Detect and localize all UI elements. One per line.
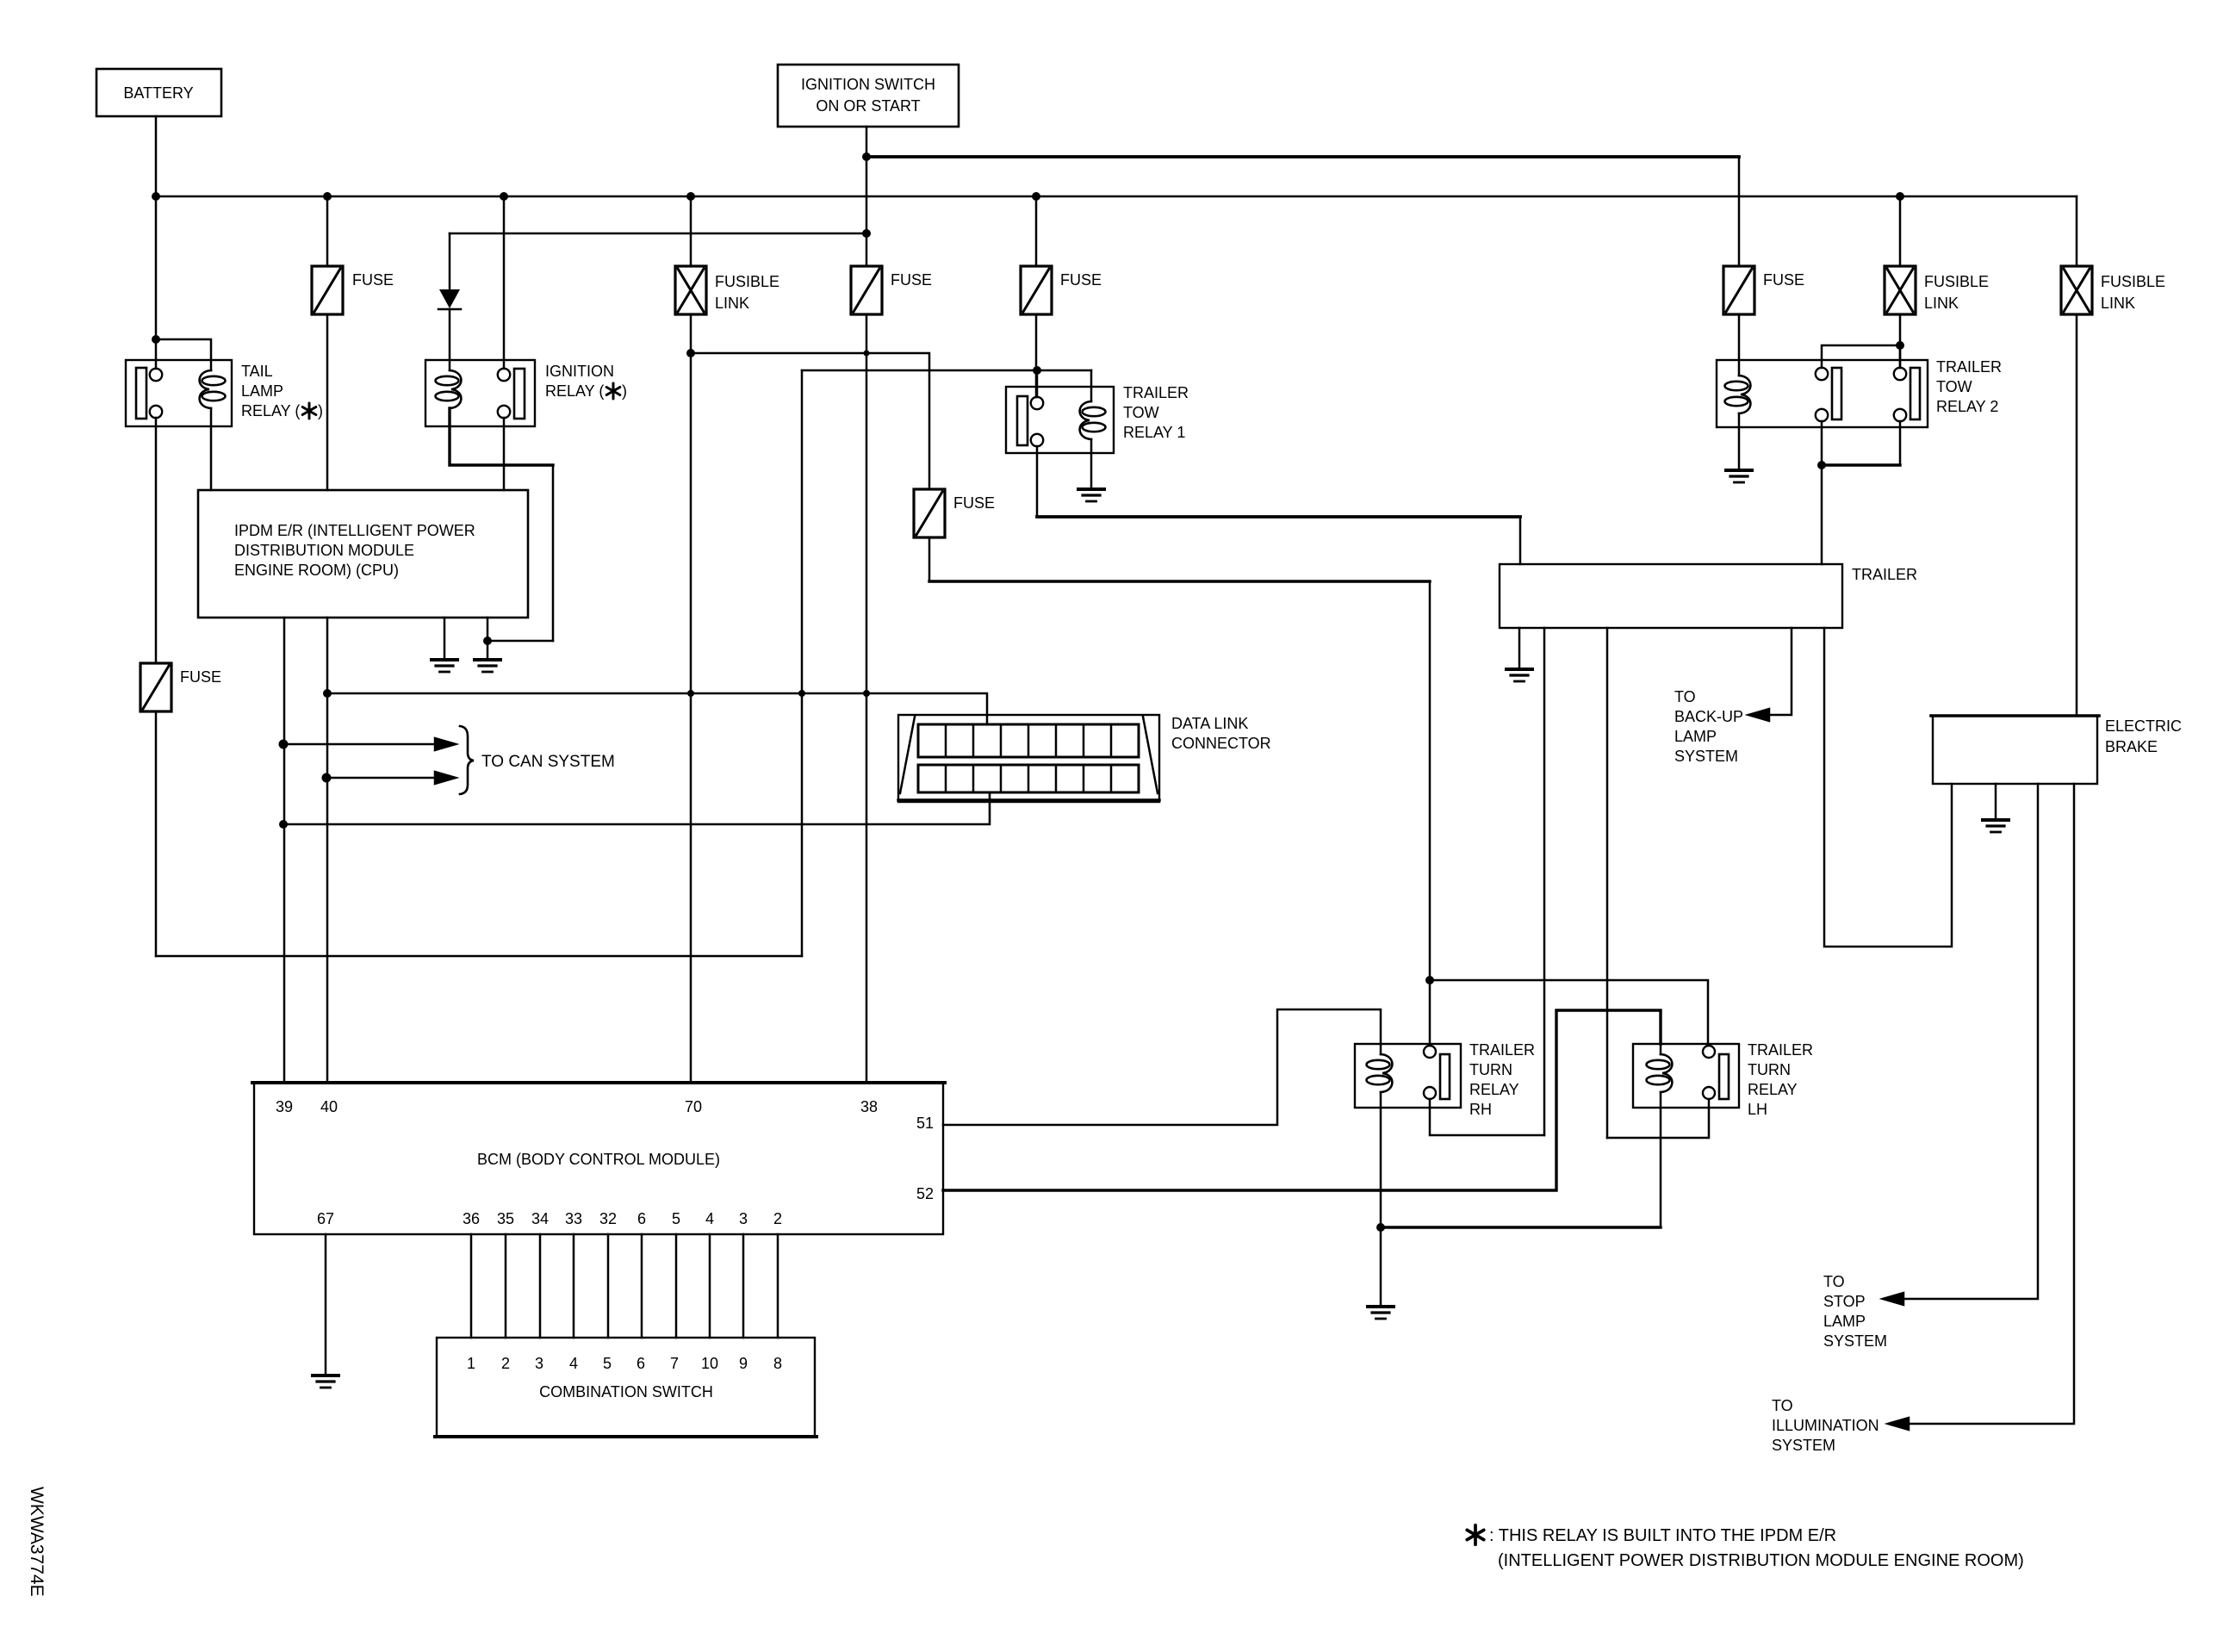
relay K1 tail lamp relay box: [126, 360, 232, 426]
ground IPDM 1: [432, 660, 457, 672]
arrowhead to stop lamp system: [1883, 1293, 1903, 1305]
wire F4 to relay2 coil: [1738, 314, 1741, 376]
svg-text:2: 2: [501, 1355, 510, 1372]
svg-text:36: 36: [463, 1210, 480, 1227]
wire K4 mid contact out: [1821, 421, 1823, 465]
wire F3 to relay1 contact: [1035, 314, 1038, 397]
node bus-fusiblelink1: [686, 192, 695, 201]
svg-text:BRAKE: BRAKE: [2105, 738, 2158, 755]
wire K4 right contact down: [1899, 421, 1902, 465]
wire K5 coil return: [1380, 1092, 1382, 1227]
coil K3 trailer tow relay 1 coil: [1080, 401, 1106, 439]
arrowhead CAN 1: [435, 738, 456, 750]
wire K5 contact out to trailer: [1430, 1099, 1544, 1135]
connector TRAILER box: [1500, 564, 1842, 628]
coil K4 trailer tow relay 2 coil: [1725, 376, 1751, 413]
svg-text:WKWA3774E: WKWA3774E: [27, 1487, 47, 1597]
wire BCM 51 to turn relay RH coil: [943, 1009, 1381, 1125]
node can40: [323, 689, 332, 698]
pin K1 contact bottom: [150, 406, 162, 418]
node can39: [279, 820, 288, 829]
svg-text:TO: TO: [1772, 1397, 1793, 1414]
svg-text:TO: TO: [1823, 1273, 1845, 1290]
wire K5 coil stem: [1380, 1044, 1382, 1054]
wire bus to K2 contact: [503, 196, 506, 369]
svg-text:TOW: TOW: [1936, 378, 1972, 395]
wire IPDM pin to ground2: [487, 618, 489, 660]
wire battery bus B+: [156, 196, 2077, 198]
pin K6 contact bottom: [1703, 1087, 1715, 1099]
svg-text:LAMP: LAMP: [1674, 728, 1717, 745]
arrowhead to backup lamp system: [1748, 709, 1769, 721]
wire IPDM pin to ground1: [444, 618, 446, 660]
wire K2 coil return (thick L): [450, 408, 553, 465]
svg-text:COMBINATION SWITCH: COMBINATION SWITCH: [539, 1383, 713, 1400]
wire trailer backup pin: [1762, 628, 1792, 715]
svg-text:FUSIBLE: FUSIBLE: [715, 273, 779, 290]
wire K4 bottom jumper (thick): [1822, 463, 1900, 466]
pin K4 right top: [1894, 368, 1906, 380]
wire ignition feed (thick): [866, 155, 1739, 158]
pin K2 contact top: [498, 369, 510, 381]
svg-text:RELAY (: RELAY (: [545, 382, 604, 400]
wire to trailer pin1: [1519, 517, 1522, 564]
svg-text:IPDM E/R (INTELLIGENT POWER: IPDM E/R (INTELLIGENT POWER: [234, 522, 475, 539]
node turn relay contact split: [1425, 976, 1434, 984]
wire BCM to combination switch: [675, 1234, 678, 1338]
wire K6 coil stem: [1660, 1044, 1662, 1054]
svg-text:FUSE: FUSE: [891, 271, 932, 289]
contact K1 movable bar: [136, 368, 146, 419]
wire BCM to combination switch: [709, 1234, 711, 1338]
wire coil return drop: [552, 465, 555, 641]
svg-text:6: 6: [637, 1210, 646, 1227]
wire F6 down: [928, 537, 931, 581]
pin K3 contact top: [1031, 397, 1043, 409]
fuse F6 (turn relay contact feed): [914, 489, 945, 537]
node turn relay ground join: [1376, 1223, 1385, 1232]
wire BCM to combination switch: [777, 1234, 779, 1338]
svg-text:TOW: TOW: [1123, 404, 1159, 421]
ignition switch SW: [778, 65, 959, 127]
svg-text:ENGINE ROOM) (CPU): ENGINE ROOM) (CPU): [234, 562, 399, 579]
fuse F2 (ignition to BCM 38): [851, 266, 882, 314]
DLC pin row top: [918, 724, 1139, 757]
wire bus to FL1: [690, 196, 692, 266]
coil K5 turn RH coil: [1367, 1054, 1393, 1092]
svg-text:IGNITION: IGNITION: [545, 363, 614, 380]
wire EB to stop lamp: [1903, 784, 2038, 1299]
wire K1 contact out to F5: [155, 418, 158, 663]
ground trailer: [1506, 669, 1532, 681]
pin K4 mid top: [1816, 368, 1828, 380]
wire K2 contact to IPDM: [503, 418, 506, 490]
svg-text:1: 1: [467, 1355, 475, 1372]
relay K6 trailer turn relay LH box: [1633, 1044, 1739, 1108]
wire bus to F3: [1035, 196, 1038, 266]
wire K3 out across (thick): [1037, 515, 1520, 519]
pin K2 contact bottom: [498, 406, 510, 418]
svg-text:LINK: LINK: [2101, 295, 2135, 312]
svg-text:TO: TO: [1674, 688, 1696, 705]
node relay1 contact feed: [1033, 366, 1041, 375]
svg-text:70: 70: [685, 1098, 702, 1115]
svg-text:6: 6: [637, 1355, 645, 1372]
contact K3 bar: [1017, 396, 1028, 445]
svg-text:TAIL: TAIL: [241, 363, 273, 380]
module BCM body control module box: [254, 1083, 943, 1234]
wire FL2 into K4: [1899, 345, 1902, 368]
coil K1 tail lamp relay coil: [200, 370, 226, 408]
svg-text:: THIS RELAY IS BUILT INTO THE: : THIS RELAY IS BUILT INTO THE IPDM E/R: [1489, 1526, 1836, 1545]
pin K5 contact bottom: [1424, 1087, 1436, 1099]
svg-text:RH: RH: [1469, 1101, 1492, 1118]
contact K4 right bar: [1910, 368, 1920, 419]
svg-text:): ): [622, 382, 627, 400]
svg-text:52: 52: [916, 1185, 934, 1202]
contact K2 bar: [514, 369, 525, 419]
wire ignition down through F2: [866, 157, 868, 266]
svg-text:LINK: LINK: [1924, 295, 1959, 312]
wire diode feed: [450, 233, 866, 235]
node F2-crossA: [864, 351, 870, 357]
wire across to relay1 coil riser: [156, 955, 802, 958]
wire bus to FL3: [2076, 196, 2078, 266]
svg-text:FUSIBLE: FUSIBLE: [1924, 273, 1989, 290]
wire BCM to combination switch: [539, 1234, 542, 1338]
wire K6 coil return: [1660, 1092, 1662, 1227]
wire trailer turn RH line: [1543, 628, 1546, 1135]
svg-text:33: 33: [565, 1210, 582, 1227]
svg-text:FUSE: FUSE: [180, 668, 221, 686]
svg-text:RELAY 2: RELAY 2: [1936, 398, 1998, 415]
module ELECTRIC BRAKE box: [1933, 716, 2097, 784]
ground turn relays: [1368, 1307, 1394, 1319]
node arrow2: [322, 773, 332, 783]
battery BAT: [96, 69, 221, 116]
ground K3: [1078, 489, 1104, 501]
svg-text:5: 5: [603, 1355, 612, 1372]
node FL2 branch: [1896, 341, 1904, 350]
wire ignition switch stem: [866, 127, 868, 157]
svg-text:DATA LINK: DATA LINK: [1171, 715, 1248, 732]
wire ground join across (thick): [1381, 1226, 1661, 1228]
svg-text:ON OR START: ON OR START: [816, 97, 920, 115]
wire FL3 to electric brake: [2076, 314, 2078, 716]
wire diode to ignition relay coil: [449, 309, 451, 370]
wire relay1 coil riser: [801, 370, 804, 956]
svg-text:8: 8: [773, 1355, 782, 1372]
wire K3 coil to ground: [1090, 439, 1093, 489]
node bus-fuse3: [1032, 192, 1040, 201]
pin K1 contact top: [150, 369, 162, 381]
wire trailer turn LH line: [1606, 628, 1609, 1138]
wire EB ground pin: [1995, 784, 1997, 820]
node can-cross-70: [687, 690, 694, 697]
wire F1 to IPDM: [326, 314, 329, 490]
svg-text:LAMP: LAMP: [1823, 1313, 1866, 1330]
svg-text:4: 4: [705, 1210, 714, 1227]
svg-text:TURN: TURN: [1748, 1061, 1791, 1078]
svg-text:40: 40: [320, 1098, 338, 1115]
svg-text:5: 5: [672, 1210, 680, 1227]
relay K2 ignition relay box: [425, 360, 535, 426]
svg-text:SYSTEM: SYSTEM: [1674, 748, 1738, 765]
svg-text:9: 9: [739, 1355, 748, 1372]
wire coil stem K3: [1090, 370, 1093, 401]
svg-text:LINK: LINK: [715, 295, 749, 312]
wire CAN arrow 2: [326, 777, 436, 779]
svg-text:51: 51: [916, 1115, 934, 1132]
node K4 out: [1817, 461, 1826, 469]
wire riser to relay1 coil: [802, 370, 1091, 372]
svg-text:LAMP: LAMP: [241, 382, 283, 400]
wire FL2 to relay2 contact: [1899, 314, 1902, 368]
contact K4 mid bar: [1832, 368, 1841, 419]
svg-text:TRAILER: TRAILER: [1123, 384, 1189, 401]
node ignition-feed: [862, 152, 871, 161]
ground K4: [1726, 470, 1752, 482]
wire F6 across to turn relays (thick): [929, 580, 1430, 582]
relay K3 trailer tow relay 1 box: [1006, 387, 1114, 453]
svg-text:RELAY 1: RELAY 1: [1123, 424, 1185, 441]
wire BCM to combination switch: [641, 1234, 643, 1338]
diode D1: [439, 289, 460, 308]
wire BCM to combination switch: [470, 1234, 473, 1338]
ground electric brake: [1983, 820, 2009, 832]
pin K4 right bottom: [1894, 409, 1906, 421]
wire FL1 branch across: [691, 353, 929, 489]
svg-text:34: 34: [531, 1210, 549, 1227]
relay K5 trailer turn relay RH box: [1355, 1044, 1461, 1108]
wire K4 coil to ground: [1738, 413, 1741, 470]
wire bus to F1: [326, 196, 329, 266]
coil K6 turn LH coil: [1647, 1054, 1673, 1092]
svg-text:67: 67: [317, 1210, 334, 1227]
relay K4 trailer tow relay 2 box: [1717, 360, 1928, 427]
svg-text:CONNECTOR: CONNECTOR: [1171, 735, 1271, 752]
svg-text:LH: LH: [1748, 1101, 1767, 1118]
contact K5 bar: [1440, 1054, 1450, 1099]
wire coil return to ground join: [487, 640, 553, 643]
svg-text:TURN: TURN: [1469, 1061, 1512, 1078]
fusible link FL3: [2061, 266, 2092, 314]
wire K4 contact jumper top: [1822, 345, 1900, 368]
fuse F4 (trailer tow relay 2 coil feed): [1723, 266, 1754, 314]
wire CAN-L from DLC: [283, 792, 990, 824]
star footnote: [1467, 1525, 1484, 1545]
node can-cross-38: [863, 690, 870, 697]
arrowhead to illumination system: [1888, 1418, 1909, 1430]
node can-cross-riser: [798, 690, 805, 697]
wire FL1 to BCM pin 70: [690, 314, 692, 1083]
wire EB to illumination: [1909, 784, 2074, 1424]
wire K4 out to trailer: [1821, 465, 1823, 564]
node FL1 branch: [686, 349, 695, 357]
wire bus to FL2: [1899, 196, 1902, 266]
svg-text:32: 32: [599, 1210, 617, 1227]
svg-text:FUSE: FUSE: [1763, 271, 1804, 289]
svg-text:SYSTEM: SYSTEM: [1772, 1437, 1835, 1454]
svg-text:2: 2: [773, 1210, 782, 1227]
wire join to ground: [1380, 1227, 1382, 1307]
wire BCM 67 to ground: [325, 1234, 327, 1376]
pin K5 contact top: [1424, 1046, 1436, 1058]
contact K6 bar: [1719, 1054, 1729, 1099]
coil K2 ignition relay coil: [436, 370, 462, 408]
svg-text:TRAILER: TRAILER: [1748, 1041, 1813, 1059]
node bus-fusiblelink2: [1896, 192, 1904, 201]
wire contact split to LH: [1430, 980, 1708, 1046]
wire diode drop: [449, 233, 451, 289]
wire CAN arrow 1: [283, 743, 436, 746]
wire battery stem: [155, 116, 158, 196]
node diode branch: [862, 229, 871, 238]
wire BCM 52 to turn relay LH coil (thick): [943, 1010, 1661, 1190]
svg-text:35: 35: [497, 1210, 514, 1227]
wire trailer to electric brake: [1824, 628, 1952, 947]
fuse F3 (trailer tow relay 1 feed): [1021, 266, 1052, 314]
node IPDM ground join: [483, 637, 492, 645]
svg-text:BCM (BODY CONTROL MODULE): BCM (BODY CONTROL MODULE): [477, 1151, 720, 1168]
ground IPDM 2: [475, 660, 500, 672]
pin K4 mid bottom: [1816, 409, 1828, 421]
svg-text:TRAILER: TRAILER: [1936, 358, 2002, 376]
svg-text:DISTRIBUTION MODULE: DISTRIBUTION MODULE: [234, 542, 414, 559]
module IPDM E/R box: [198, 490, 528, 618]
svg-text:ELECTRIC: ELECTRIC: [2105, 717, 2182, 735]
pin K3 contact bottom: [1031, 434, 1043, 446]
svg-text:TRAILER: TRAILER: [1852, 566, 1917, 583]
wire turn relay contact drop: [1429, 581, 1431, 1046]
svg-text:STOP: STOP: [1823, 1293, 1866, 1310]
svg-text:39: 39: [276, 1098, 293, 1115]
star ignition relay note: [606, 383, 620, 399]
fuse F5 (tail relay output): [140, 663, 171, 711]
svg-text:RELAY (: RELAY (: [241, 402, 300, 419]
svg-text:BATTERY: BATTERY: [123, 84, 193, 102]
svg-text:38: 38: [860, 1098, 878, 1115]
wire IPDM to BCM pin 39: [283, 618, 286, 1083]
node bus-battery: [152, 192, 160, 201]
switch COMBINATION SWITCH box: [437, 1338, 815, 1437]
wire IPDM to BCM pin 40: [326, 618, 329, 1083]
ground BCM 67: [313, 1376, 338, 1388]
svg-text:FUSE: FUSE: [953, 494, 995, 512]
svg-text:BACK-UP: BACK-UP: [1674, 708, 1743, 725]
node bus-fuse1: [323, 192, 332, 201]
wire trailer ground pin: [1518, 628, 1521, 669]
svg-text:3: 3: [739, 1210, 748, 1227]
wire CAN-H to DLC: [327, 693, 987, 724]
wire BCM to combination switch: [607, 1234, 610, 1338]
DLC pin row bottom: [918, 765, 1139, 792]
svg-text:4: 4: [569, 1355, 578, 1372]
svg-text:FUSE: FUSE: [352, 271, 394, 289]
star tail relay note: [302, 403, 316, 419]
svg-text:ILLUMINATION: ILLUMINATION: [1772, 1417, 1879, 1434]
svg-text:10: 10: [701, 1355, 718, 1372]
wire K3 contact in: [1036, 370, 1039, 397]
svg-text:TRAILER: TRAILER: [1469, 1041, 1535, 1059]
fusible link FL2: [1885, 266, 1916, 314]
wire F2 to BCM pin 38: [866, 314, 868, 1083]
pin K6 contact top: [1703, 1046, 1715, 1058]
node tail relay split: [152, 335, 160, 344]
svg-text:3: 3: [535, 1355, 543, 1372]
svg-text:RELAY: RELAY: [1748, 1081, 1798, 1098]
connector DLC data link connector: [898, 715, 1159, 802]
svg-text:7: 7: [670, 1355, 679, 1372]
wire tail relay coil feed: [156, 339, 211, 370]
fuse F1 (tail lamp relay feed): [312, 266, 343, 314]
svg-text:): ): [318, 402, 323, 419]
wire BCM to combination switch: [573, 1234, 575, 1338]
arrowhead CAN 2: [435, 772, 456, 784]
svg-text:FUSE: FUSE: [1060, 271, 1102, 289]
svg-text:FUSIBLE: FUSIBLE: [2101, 273, 2165, 290]
wire F5 down: [155, 711, 158, 956]
wire ignition feed to F4: [1738, 157, 1741, 266]
svg-text:RELAY: RELAY: [1469, 1081, 1519, 1098]
wire K3 contact out (thick): [1036, 446, 1039, 517]
brace CAN: [460, 726, 474, 794]
wire K1 coil to IPDM: [210, 408, 213, 490]
node arrow1: [279, 740, 289, 749]
wire BCM to combination switch: [742, 1234, 745, 1338]
svg-text:IGNITION SWITCH: IGNITION SWITCH: [801, 76, 935, 93]
wire BCM to combination switch: [505, 1234, 507, 1338]
svg-text:(INTELLIGENT POWER DISTRIBUTIO: (INTELLIGENT POWER DISTRIBUTION MODULE E…: [1498, 1551, 2024, 1570]
node bus-ignrelay: [500, 192, 508, 201]
wire K6 contact out to trailer: [1607, 1099, 1709, 1138]
svg-text:SYSTEM: SYSTEM: [1823, 1332, 1887, 1350]
svg-text:TO CAN SYSTEM: TO CAN SYSTEM: [481, 753, 615, 771]
fusible link FL1: [675, 266, 706, 314]
wire battery to tail relay contact: [155, 196, 158, 369]
